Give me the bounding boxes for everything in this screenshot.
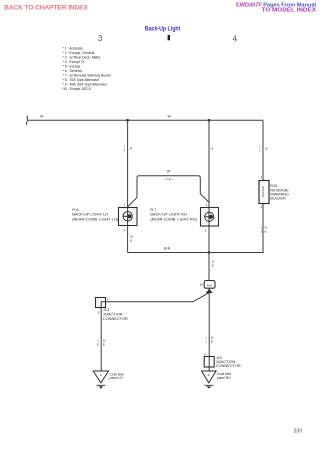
svg-text:2: 2	[261, 205, 263, 209]
svg-text:W-B: W-B	[164, 246, 171, 250]
page mark 1	[168, 35, 170, 40]
junction connector J10	[204, 357, 214, 368]
junction connector J13	[96, 298, 106, 308]
svg-text:*10 : Except 1RZ-E: *10 : Except 1RZ-E	[62, 87, 92, 91]
wire top horizontal W	[28, 119, 263, 121]
svg-text:( 1-D ): ( 1-D )	[165, 177, 173, 181]
svg-text:E: E	[97, 343, 99, 347]
ground mark LH	[96, 384, 105, 386]
svg-text:2: 2	[107, 297, 109, 301]
wire loop between lamps	[137, 176, 209, 203]
wire diagonal and horizontal to J13	[101, 293, 209, 302]
wire vertical to back-up light LH	[127, 120, 129, 207]
svg-text:1: 1	[124, 203, 126, 207]
svg-text:BUZZER: BUZZER	[261, 186, 265, 197]
svg-text:panel LH: panel LH	[110, 376, 124, 380]
svg-text:1: 1	[206, 203, 208, 207]
svg-text:339: 339	[293, 429, 302, 435]
svg-text:Back-Up Light: Back-Up Light	[145, 26, 181, 32]
back-up light RH R7	[201, 208, 219, 227]
wire through connector down to J10	[208, 288, 210, 356]
svg-text:B: B	[212, 147, 214, 151]
svg-text:A: A	[204, 352, 206, 356]
svg-text:W: W	[40, 114, 44, 118]
svg-text:IK: IK	[208, 373, 211, 377]
svg-text:* 9 : 40A, 50A Type Alternator: * 9 : 40A, 50A Type Alternator	[63, 83, 108, 87]
splice arrow	[206, 289, 213, 293]
wire J13 inner step down to ground	[100, 302, 102, 371]
svg-text:* 6 : General: * 6 : General	[63, 69, 82, 73]
svg-text:B: B	[211, 340, 213, 344]
svg-text:* 4 : Except *3: * 4 : Except *3	[63, 60, 85, 64]
wire lamp LH through	[127, 207, 129, 226]
svg-text:CONNECTOR: CONNECTOR	[103, 316, 128, 321]
svg-text:B: B	[265, 230, 267, 234]
svg-text:* 5 : Europe: * 5 : Europe	[63, 65, 81, 69]
svg-text:B: B	[130, 239, 132, 243]
svg-text:B: B	[266, 147, 268, 151]
svg-text:panel RH: panel RH	[217, 376, 231, 380]
legend list	[62, 47, 112, 91]
svg-text:B: B	[212, 264, 214, 268]
label R6 BACK-UP LIGHT LH	[72, 207, 118, 221]
svg-text:3: 3	[98, 34, 103, 43]
svg-text:CONNECTOR: CONNECTOR	[216, 363, 241, 368]
svg-text:* 8 : 70A Type Alternator: * 8 : 70A Type Alternator	[63, 78, 100, 82]
svg-text:2: 2	[124, 228, 126, 232]
svg-text:W: W	[168, 114, 172, 118]
wire vertical to buzzer	[262, 120, 264, 181]
label Cowl side panel RH	[217, 372, 231, 380]
svg-text:B: B	[130, 147, 132, 151]
svg-text:B: B	[103, 343, 105, 347]
wire vertical to back-up light RH	[208, 120, 210, 207]
ground mark RH	[204, 384, 213, 386]
wire diagonal into lamp LH	[128, 198, 137, 207]
svg-text:1: 1	[260, 175, 262, 179]
back-up light LH R6	[119, 208, 138, 226]
label J13 JUNCTION CONNECTOR	[103, 307, 128, 321]
node junction dot bottom	[208, 251, 211, 254]
label J10 JUNCTION CONNECTOR	[216, 355, 241, 368]
svg-text:BACK TO CHAPTER INDEX: BACK TO CHAPTER INDEX	[4, 5, 88, 12]
svg-text:2: 2	[205, 229, 207, 233]
buzzer R15 box	[259, 181, 269, 204]
label R15 REVERSE WARNING BUZZER	[270, 183, 289, 200]
ground RH	[202, 371, 217, 383]
svg-text:4: 4	[233, 34, 238, 43]
connector BA3	[204, 281, 215, 289]
svg-text:BA3: BA3	[207, 283, 213, 287]
svg-text:* 7 : w/ Reverse Warning Buzze: * 7 : w/ Reverse Warning Buzzer	[63, 74, 113, 78]
svg-text:J: J	[205, 340, 207, 344]
wire lamp LH down	[127, 226, 129, 253]
label Cowl side panel LH	[110, 372, 124, 380]
node junction dot RH	[208, 119, 211, 122]
svg-text:* 1 : Australia: * 1 : Australia	[63, 47, 83, 51]
wire buzzer to bottom horizontal	[209, 204, 263, 253]
wire lamp RH down to connector	[208, 226, 210, 281]
svg-text:(REAR COMB. LIGHT RH): (REAR COMB. LIGHT RH)	[150, 216, 197, 221]
ground LH	[93, 371, 108, 383]
svg-text:W: W	[167, 170, 171, 174]
wire break symbol	[26, 116, 28, 126]
node junction dot LH	[126, 119, 129, 122]
svg-text:B1: B1	[200, 282, 204, 286]
svg-text:E: E	[98, 311, 100, 315]
svg-text:TO MODEL INDEX: TO MODEL INDEX	[262, 8, 317, 14]
wire bottom horizontal W-B	[128, 252, 263, 254]
svg-text:3: 3	[123, 149, 125, 153]
svg-text:BUZZER: BUZZER	[270, 196, 286, 201]
label R7 BACK-UP LIGHT RH	[150, 207, 197, 221]
wire J10 to ground	[208, 367, 210, 371]
svg-text:* 3 : w/ Rear Deck, Malta: * 3 : w/ Rear Deck, Malta	[63, 56, 101, 60]
wire lamp RH through	[208, 208, 210, 227]
svg-text:* 2 : Europe, General: * 2 : Europe, General	[63, 51, 95, 55]
svg-text:(REAR COMB. LIGHT LH): (REAR COMB. LIGHT LH)	[72, 216, 118, 221]
svg-text:Y: Y	[259, 149, 261, 153]
